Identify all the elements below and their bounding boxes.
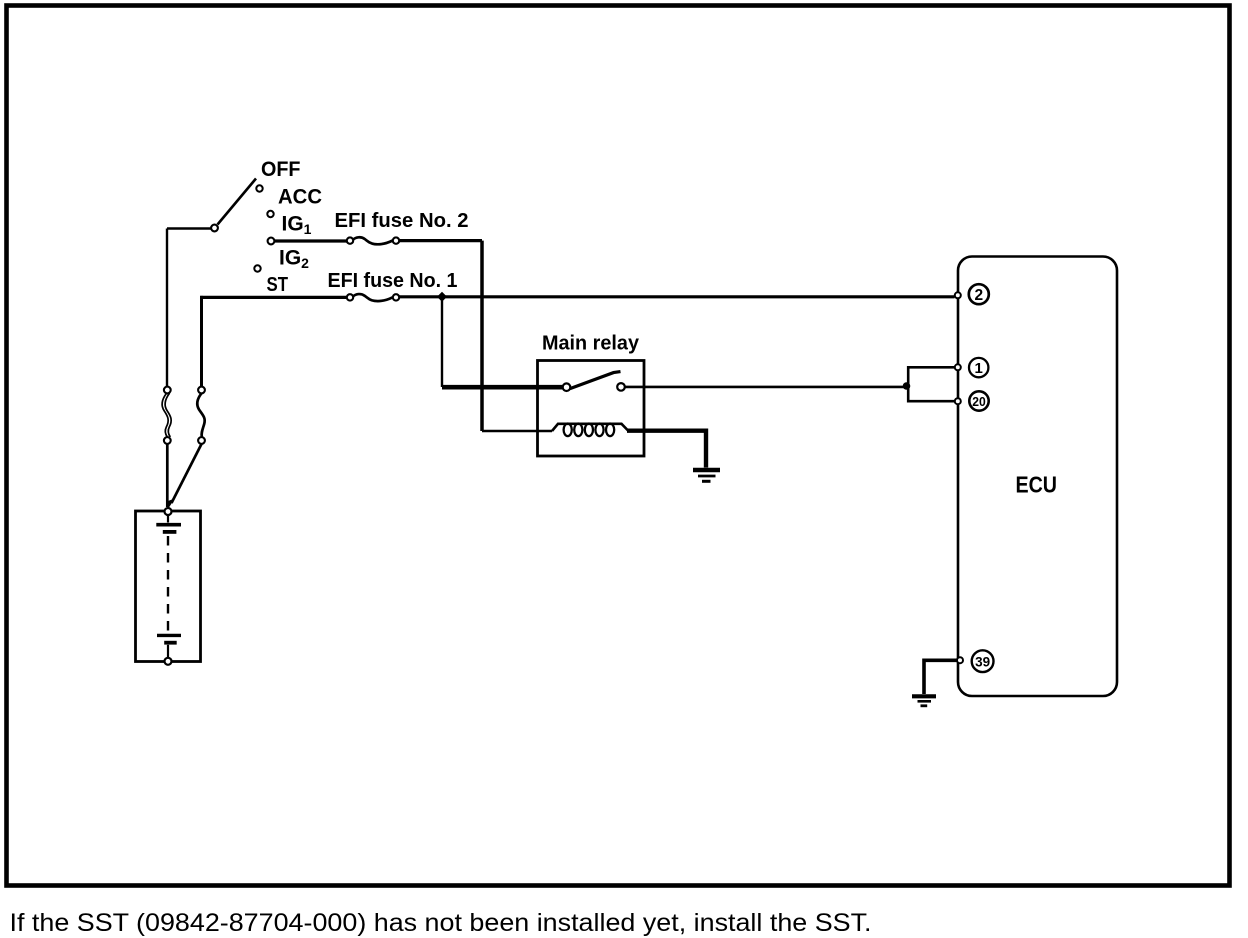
- relay coil: [552, 424, 628, 437]
- svg-text:2: 2: [974, 287, 983, 304]
- wire vertical drop to relay coil: [480, 241, 484, 431]
- ECU pin 2: [955, 292, 961, 298]
- ECU box: [958, 257, 1117, 697]
- fuse F2 (EFI fuse No. 2): [347, 237, 399, 244]
- arrowhead at battery terminal: [167, 499, 175, 509]
- ECU pin 1: [955, 364, 961, 370]
- wire diagonal link to battery positive: [172, 444, 202, 503]
- svg-text:EFI fuse No. 2: EFI fuse No. 2: [335, 209, 469, 232]
- wire junction down: [441, 297, 443, 387]
- battery: [136, 508, 201, 665]
- wire fuse1 to ECU pin 2: [399, 295, 955, 298]
- wire link to battery positive: [166, 444, 169, 507]
- ECU pin 39: [957, 657, 963, 663]
- ignition switch arm: [218, 179, 257, 225]
- ground G1: [693, 470, 720, 481]
- contact IG1: [268, 238, 275, 245]
- wire thick feed to relay contact: [442, 385, 563, 390]
- svg-text:ACC: ACC: [278, 186, 322, 209]
- pin label 20: [969, 391, 988, 410]
- contact IG2: [254, 265, 260, 271]
- main relay box: [538, 361, 645, 457]
- pin label 39: [972, 650, 994, 672]
- svg-text:EFI fuse No. 1: EFI fuse No. 1: [328, 269, 458, 292]
- pin label 1: [969, 358, 988, 377]
- svg-text:Main relay: Main relay: [542, 332, 640, 355]
- relay contact right: [617, 383, 625, 391]
- contact OFF: [256, 185, 262, 191]
- wire pin 39 to ground: [924, 660, 957, 694]
- switch branch vertical wire: [166, 229, 168, 387]
- wire ST corner to fuse1: [200, 296, 347, 299]
- ground G2: [912, 696, 936, 706]
- wire relay to ECU bracket: [625, 386, 906, 389]
- relay switch arm: [570, 372, 621, 389]
- pin label 2: [969, 284, 989, 304]
- wire to relay coil left: [482, 430, 552, 433]
- ignition switch pivot: [211, 225, 218, 232]
- wire IG1 contact to fuse2: [275, 239, 348, 242]
- ignition switch feed wire: [167, 227, 211, 229]
- fuse F1 (EFI fuse No. 1): [347, 294, 399, 301]
- junction at relay feed: [437, 292, 447, 302]
- contact ACC: [267, 211, 273, 217]
- fusible link FL1 terminals and ribbon: [162, 387, 171, 444]
- bracket wire to pins 1 and 20: [908, 367, 954, 401]
- svg-text:20: 20: [972, 394, 986, 409]
- ECU pin 20: [955, 398, 961, 404]
- svg-text:ECU: ECU: [1016, 472, 1058, 498]
- svg-text:OFF: OFF: [261, 158, 301, 181]
- fusible link FL2 terminals and wave: [197, 387, 205, 444]
- wire fuse2 to corner: [399, 239, 482, 242]
- ST branch vertical wire: [200, 296, 203, 387]
- svg-text:If the SST (09842-87704-000) h: If the SST (09842-87704-000) has not bee…: [10, 909, 872, 937]
- relay contact left: [563, 383, 571, 391]
- svg-text:ST: ST: [267, 274, 289, 296]
- wire coil to ground: [627, 431, 706, 468]
- svg-text:1: 1: [975, 360, 983, 377]
- svg-text:39: 39: [975, 654, 990, 670]
- junction at bracket: [903, 382, 911, 390]
